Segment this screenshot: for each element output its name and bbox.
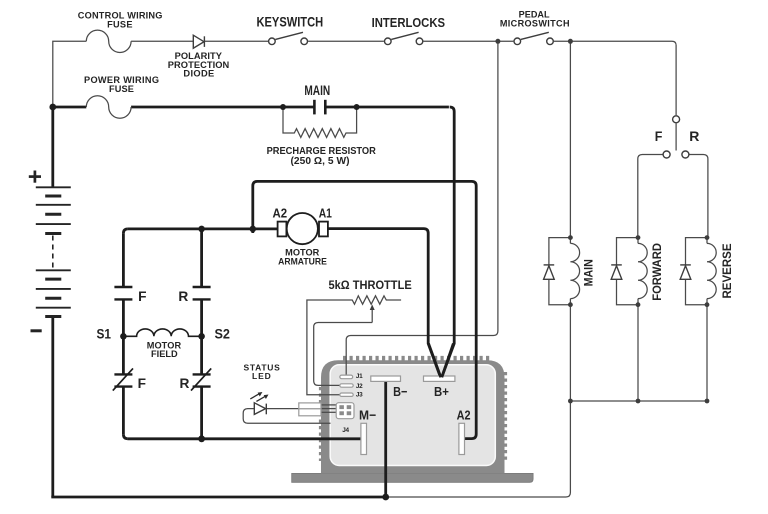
svg-text:FUSE: FUSE <box>107 20 132 30</box>
svg-text:MICROSWITCH: MICROSWITCH <box>500 19 570 29</box>
svg-text:FUSE: FUSE <box>109 84 134 94</box>
svg-text:B−: B− <box>393 384 407 399</box>
svg-text:R: R <box>180 376 190 391</box>
svg-text:J1: J1 <box>356 373 363 380</box>
svg-text:REVERSE: REVERSE <box>720 243 734 298</box>
svg-text:(250 Ω, 5 W): (250 Ω, 5 W) <box>290 156 349 167</box>
svg-text:MAIN: MAIN <box>583 259 596 286</box>
svg-text:KEYSWITCH: KEYSWITCH <box>256 15 323 30</box>
svg-text:F: F <box>138 376 146 391</box>
svg-text:J2: J2 <box>356 383 363 390</box>
svg-text:MAIN: MAIN <box>304 82 330 98</box>
svg-text:ARMATURE: ARMATURE <box>278 256 327 266</box>
svg-text:LED: LED <box>252 371 271 381</box>
svg-text:B+: B+ <box>434 384 449 399</box>
svg-text:INTERLOCKS: INTERLOCKS <box>372 15 445 30</box>
svg-text:M−: M− <box>359 408 376 423</box>
svg-text:5kΩ THROTTLE: 5kΩ THROTTLE <box>329 280 413 292</box>
svg-text:R: R <box>178 289 188 304</box>
svg-text:S2: S2 <box>214 326 230 342</box>
svg-text:J3: J3 <box>356 392 363 399</box>
svg-text:FIELD: FIELD <box>151 349 178 359</box>
svg-text:J4: J4 <box>342 427 349 434</box>
svg-text:F: F <box>138 289 146 304</box>
svg-text:DIODE: DIODE <box>183 69 214 79</box>
svg-text:A2: A2 <box>273 206 288 221</box>
svg-text:R: R <box>689 128 699 144</box>
svg-text:A1: A1 <box>319 205 333 221</box>
svg-text:S1: S1 <box>96 326 110 342</box>
svg-text:A2: A2 <box>457 408 471 423</box>
svg-text:F: F <box>655 129 663 145</box>
svg-text:FORWARD: FORWARD <box>651 243 665 301</box>
